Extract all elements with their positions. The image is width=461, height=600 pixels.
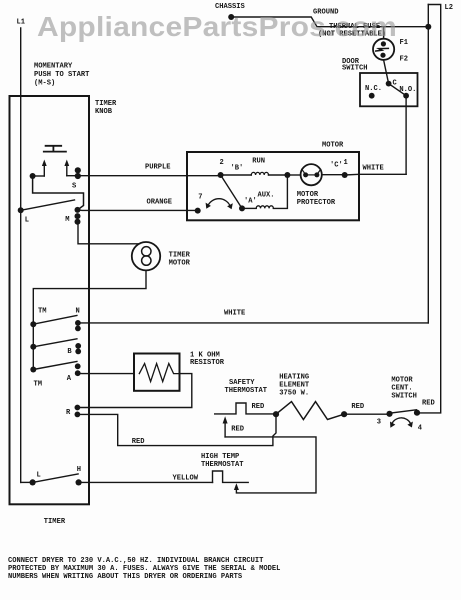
svg-text:TIMER: TIMER (44, 518, 66, 526)
node L on L1 bus (18, 207, 29, 224)
label YELLOW (173, 475, 199, 483)
contact TM upper (30, 308, 46, 328)
svg-text:CHASSIS: CHASSIS (215, 3, 246, 11)
wire timer motor return to TM contact (33, 270, 146, 324)
blade TM-N (33, 316, 77, 325)
wire TM contact chain (32, 324, 34, 369)
svg-text:F1: F1 (400, 39, 409, 47)
note bottom text (8, 557, 280, 581)
svg-text:L: L (37, 472, 41, 480)
pin label 'B' (231, 164, 244, 172)
svg-text:L: L (25, 217, 29, 225)
svg-text:4: 4 (418, 424, 423, 432)
motor protector MP (287, 164, 344, 185)
arrow left push contact (42, 160, 47, 177)
wire push-start to M (33, 176, 84, 210)
wire chassis ground to L2 (231, 17, 428, 27)
svg-text:SAFETY: SAFETY (229, 379, 255, 387)
timer motor TM (132, 242, 160, 270)
svg-text:MOTOR: MOTOR (169, 260, 191, 268)
svg-text:M: M (65, 216, 69, 224)
svg-text:R: R (66, 409, 71, 417)
node TM lower (30, 367, 42, 389)
svg-text:KNOB: KNOB (95, 108, 113, 116)
svg-text:RUN: RUN (252, 158, 265, 166)
svg-text:TM: TM (38, 308, 47, 316)
svg-text:TM: TM (34, 381, 43, 389)
motor box (187, 152, 359, 220)
svg-text:MOTOR: MOTOR (322, 142, 344, 150)
svg-text:RESISTOR: RESISTOR (190, 359, 225, 367)
svg-text:N: N (76, 308, 80, 316)
svg-text:HIGH TEMP: HIGH TEMP (201, 453, 239, 461)
svg-text:NUMBERS WHEN WRITING ABOUT THI: NUMBERS WHEN WRITING ABOUT THIS DRYER OR… (8, 573, 243, 581)
svg-text:RED: RED (252, 403, 265, 411)
svg-text:RED: RED (422, 399, 435, 407)
contact L bottom (29, 472, 40, 486)
svg-text:THERMOSTAT: THERMOSTAT (225, 387, 268, 395)
arrow high-temp sensor (234, 483, 239, 490)
svg-text:'A': 'A' (244, 197, 257, 205)
svg-text:ORANGE: ORANGE (147, 199, 173, 207)
pin 2 (218, 159, 224, 178)
label RED safety sensor (231, 426, 244, 434)
svg-text:C: C (393, 80, 398, 88)
svg-text:RED: RED (231, 426, 244, 434)
terminal N (75, 308, 81, 332)
safety thermostat (215, 403, 276, 414)
svg-text:L1: L1 (17, 19, 26, 27)
svg-text:MOTOR: MOTOR (297, 191, 319, 199)
svg-text:S: S (72, 183, 77, 191)
svg-text:3: 3 (377, 419, 381, 427)
pin 7 (195, 194, 203, 214)
svg-text:HEATING: HEATING (279, 374, 309, 382)
svg-text:F2: F2 (400, 56, 409, 64)
door switch DS (342, 58, 418, 106)
arrow safety thermostat sensor (223, 416, 228, 437)
svg-text:SWITCH: SWITCH (342, 65, 368, 73)
svg-text:THERMOSTAT: THERMOSTAT (201, 461, 244, 469)
arrow right push contact (64, 160, 69, 176)
svg-text:RED: RED (132, 438, 145, 446)
wire L2 left conductor (427, 5, 429, 323)
wire L2 right conductor (417, 5, 441, 413)
svg-text:'B': 'B' (231, 164, 244, 172)
svg-text:(M-S): (M-S) (34, 80, 55, 88)
node push-start left terminal (30, 173, 36, 179)
svg-text:CENT.: CENT. (391, 385, 412, 393)
label WHITE (363, 164, 384, 172)
svg-text:N.C.: N.C. (365, 85, 382, 93)
label TIMER (44, 518, 66, 526)
wire A to resistor (78, 372, 134, 374)
push-to-start button (44, 146, 66, 152)
thermal fuse F1-F2 (373, 27, 394, 84)
wire WHITE N terminal to L2 (78, 322, 428, 324)
pin label 'C' (330, 161, 343, 169)
svg-text:N.O.: N.O. (399, 86, 416, 94)
node A motor (239, 205, 245, 211)
watermark (37, 11, 397, 42)
svg-text:PURPLE: PURPLE (145, 164, 171, 172)
svg-text:MOMENTARY: MOMENTARY (34, 63, 73, 71)
svg-text:WHITE: WHITE (363, 164, 384, 172)
svg-text:L2: L2 (445, 4, 454, 12)
blade L-H bottom (33, 474, 79, 483)
svg-text:TIMER: TIMER (95, 100, 117, 108)
wire L1 vertical (20, 28, 22, 482)
svg-text:ELEMENT: ELEMENT (279, 382, 310, 390)
blade centrifugal switch 3-4 (390, 410, 417, 413)
label TIMER MOTOR (169, 252, 191, 268)
pin 4 (414, 410, 423, 433)
pin label 'A' (244, 197, 257, 205)
svg-text:'C': 'C' (330, 161, 343, 169)
label MOMENTARY PUSH TO START (M-S) (34, 63, 90, 88)
svg-text:AUX.: AUX. (258, 191, 275, 199)
label PURPLE (145, 164, 171, 172)
svg-text:CONNECT DRYER TO 230 V.A.C.,50: CONNECT DRYER TO 230 V.A.C.,50 HZ. INDIV… (8, 557, 264, 565)
junction run/aux (284, 172, 290, 178)
svg-text:PUSH TO START: PUSH TO START (34, 71, 90, 79)
switch blade L-M (21, 200, 75, 210)
pin F2 (400, 56, 409, 64)
label ORANGE (147, 199, 173, 207)
label 1 K OHM RESISTOR (190, 352, 225, 368)
node L2 (445, 4, 454, 12)
label HEATING ELEMENT 3750 W. (279, 374, 310, 398)
svg-text:PROTECTOR: PROTECTOR (297, 199, 336, 207)
svg-text:RED: RED (351, 403, 364, 411)
label MOTOR CENT. SWITCH (391, 377, 417, 401)
timer knob box (10, 96, 90, 504)
node GROUND (313, 9, 339, 17)
node TM middle (30, 344, 36, 350)
label SAFETY THERMOSTAT (225, 379, 268, 395)
wire door switch N.O. to white (405, 96, 407, 175)
run winding (221, 158, 288, 176)
label WHITE mid (224, 310, 245, 318)
terminal R (66, 405, 80, 418)
terminal A (67, 363, 81, 383)
pin 3 (377, 411, 393, 427)
node heater right (341, 411, 347, 417)
wire RED R to heater junction (77, 414, 276, 445)
blade TM-A (33, 362, 77, 370)
junction L2/thermal-fuse (425, 24, 431, 30)
node L1 (17, 19, 26, 27)
label TIMER KNOB (95, 100, 117, 116)
blade motor 2-A (221, 175, 242, 208)
junction heater left (273, 411, 279, 417)
wire M to timer motor (78, 222, 140, 244)
resistor 1K (134, 354, 180, 391)
wire sensor loop (225, 437, 316, 493)
label MOTOR PROTECTOR (297, 191, 336, 207)
svg-text:PROTECTED BY MAXIMUM 30 A. FUS: PROTECTED BY MAXIMUM 30 A. FUSES. ALWAYS… (8, 565, 280, 573)
svg-text:H: H (77, 466, 81, 474)
svg-text:2: 2 (220, 159, 224, 167)
blade TM-B (33, 339, 77, 347)
wire right arrow to S terminal (67, 175, 78, 177)
svg-text:MOTOR: MOTOR (391, 377, 413, 385)
svg-text:3750 W.: 3750 W. (279, 390, 309, 398)
label RED L2 drop (422, 399, 435, 407)
heating element (276, 402, 344, 420)
svg-text:WHITE: WHITE (224, 310, 245, 318)
wire left terminal to arrow (33, 175, 45, 177)
centrifugal arc 3-4 (390, 418, 413, 428)
contact H bottom (76, 466, 82, 485)
terminal M (65, 207, 80, 225)
svg-text:YELLOW: YELLOW (173, 475, 199, 483)
wire WHITE motor to door switch (345, 173, 406, 176)
label MOTOR (322, 142, 344, 150)
pin F1 (400, 39, 409, 47)
label RED heater (351, 403, 364, 411)
svg-text:A: A (67, 375, 72, 383)
label THERMAL FUSE (NOT RESETTABLE) (318, 23, 386, 39)
svg-text:B: B (67, 348, 72, 356)
high temp thermostat (213, 471, 249, 482)
svg-text:7: 7 (198, 194, 202, 202)
wire L1 to L contact (21, 481, 33, 483)
terminal B (67, 343, 81, 356)
label HIGH TEMP THERMOSTAT (201, 453, 244, 469)
wire resistor to R (77, 374, 191, 408)
pin 1 (342, 159, 348, 178)
svg-text:1: 1 (344, 159, 348, 167)
label RED safety right (252, 403, 265, 411)
node CHASSIS (215, 3, 246, 20)
svg-text:TIMER: TIMER (169, 252, 191, 260)
label RED long wire (132, 438, 145, 446)
svg-text:AppliancePartsPros.com: AppliancePartsPros.com (37, 11, 397, 42)
aux winding (242, 175, 287, 208)
wire YELLOW H to high temp thermostat (79, 481, 213, 483)
wire heater to switch 3 (344, 413, 389, 415)
svg-text:SWITCH: SWITCH (391, 393, 417, 401)
terminal S (72, 167, 81, 190)
wire ORANGE M to motor terminal 7 (78, 209, 198, 212)
centrifugal arc motor (206, 199, 233, 209)
wire PURPLE S to motor terminal 2 (78, 175, 221, 177)
